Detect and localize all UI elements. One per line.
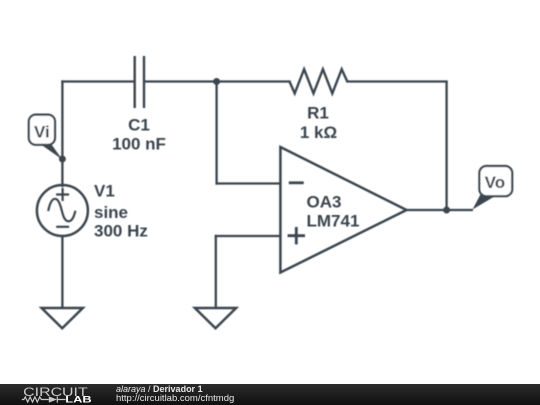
node: output junction dot bbox=[443, 207, 450, 214]
footer bar bbox=[0, 384, 540, 405]
label R1 bbox=[307, 103, 329, 122]
footer logo CIRCUIT bbox=[23, 385, 88, 399]
value LM741 bbox=[307, 212, 360, 231]
svg-text:LM741: LM741 bbox=[307, 212, 360, 231]
value 100 nF bbox=[112, 135, 166, 154]
wire: inverting input horizontal bbox=[217, 182, 281, 184]
svg-text:Vo: Vo bbox=[485, 173, 505, 192]
footer title: alaraya / Derivador 1 bbox=[116, 384, 203, 394]
capacitor C1 bbox=[135, 56, 144, 108]
ground (right, under non-inverting input) bbox=[195, 308, 236, 328]
wire: op-amp output to Vo bbox=[407, 209, 472, 211]
footer logo LAB bbox=[65, 394, 92, 404]
svg-text:http://circuitlab.com/cfntmdg: http://circuitlab.com/cfntmdg bbox=[116, 393, 234, 404]
wire: C1 right plate to summing node bbox=[145, 80, 217, 82]
wire: summing node down to inverting input bbox=[215, 82, 217, 184]
label OA3 bbox=[307, 192, 342, 211]
node: summing junction dot bbox=[213, 78, 220, 85]
label V1 bbox=[94, 182, 115, 201]
wire: top left (corner to C1 left plate) bbox=[62, 80, 133, 82]
wire: non-inverting input horizontal bbox=[216, 235, 281, 237]
ground (left, under V1) bbox=[42, 308, 83, 328]
svg-text:1 kΩ: 1 kΩ bbox=[300, 123, 337, 142]
svg-text:V1: V1 bbox=[94, 182, 115, 201]
svg-text:sine: sine bbox=[94, 203, 128, 222]
svg-text:R1: R1 bbox=[307, 103, 329, 122]
footer logo schematic squiggle bbox=[22, 396, 66, 402]
value 300 Hz bbox=[94, 222, 148, 241]
label C1 bbox=[128, 116, 150, 135]
svg-text:C1: C1 bbox=[128, 116, 150, 135]
svg-text:300 Hz: 300 Hz bbox=[94, 222, 148, 241]
wire: top right (summing node to R1) bbox=[217, 80, 290, 82]
value 1 kOhm bbox=[300, 123, 337, 142]
node Vi flag bbox=[29, 115, 63, 160]
svg-text:Vi: Vi bbox=[34, 122, 50, 141]
svg-text:100 nF: 100 nF bbox=[112, 135, 166, 154]
wire: non-inverting input down to ground bbox=[215, 236, 217, 308]
wire: Vin vertical (Vi net, top corner down to V1 top) bbox=[61, 82, 63, 187]
voltage source V1 bbox=[37, 185, 88, 236]
resistor R1 bbox=[290, 69, 348, 93]
wire: R1 to right corner and down to output bbox=[347, 82, 446, 211]
svg-text:OA3: OA3 bbox=[307, 192, 342, 211]
value sine bbox=[94, 203, 128, 222]
node: Vi junction dot bbox=[59, 156, 66, 163]
svg-text:LAB: LAB bbox=[65, 394, 92, 404]
op-amp OA3 bbox=[280, 147, 406, 273]
wire: V1 bottom to ground bbox=[61, 236, 63, 308]
footer url bbox=[116, 393, 234, 404]
node Vo flag bbox=[473, 166, 513, 210]
